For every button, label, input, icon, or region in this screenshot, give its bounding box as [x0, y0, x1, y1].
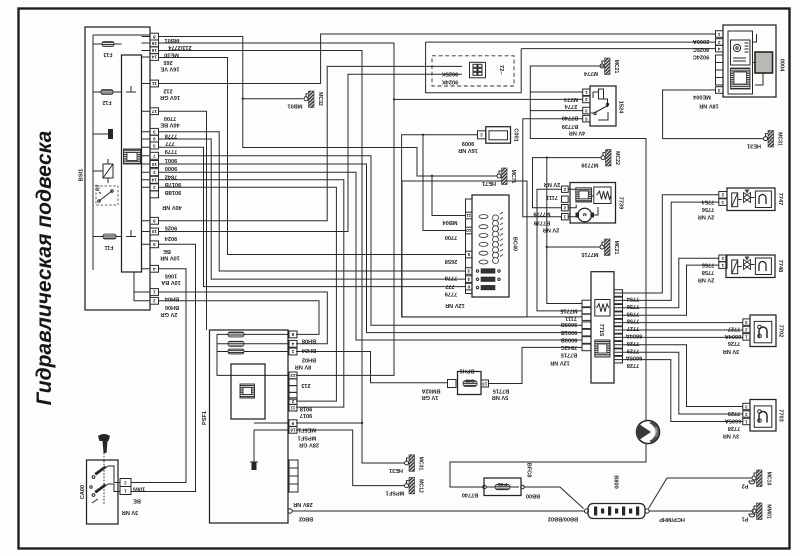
svg-text:3: 3 [467, 269, 470, 274]
svg-text:7758: 7758 [627, 318, 639, 324]
BSI1 pin 9 777 [150, 135, 159, 142]
svg-text:10: 10 [151, 162, 157, 167]
svg-text:CA00: CA00 [80, 485, 86, 499]
BSI1 pin 10 9024 [150, 228, 159, 235]
splice 8800 symbol [637, 421, 660, 444]
svg-text:1065: 1065 [165, 273, 177, 279]
svg-text:8800: 8800 [654, 428, 659, 438]
svg-text:B7739: B7739 [534, 220, 550, 226]
svg-text:16V NR: 16V NR [458, 147, 478, 153]
svg-text:9024K: 9024K [442, 79, 458, 85]
svg-text:213: 213 [301, 382, 310, 388]
wire 7111 7739 to 7715 [537, 189, 582, 311]
BSI1 pin 11 212 [150, 80, 159, 87]
svg-text:MC12: MC12 [418, 479, 424, 493]
fuse F01 box [484, 478, 521, 496]
svg-text:BH02: BH02 [302, 356, 316, 362]
svg-text:9009B: 9009B [561, 321, 577, 327]
svg-text:MC21: MC21 [613, 241, 619, 255]
svg-text:BC40: BC40 [512, 237, 518, 251]
svg-text:3: 3 [153, 143, 156, 148]
svg-text:4: 4 [153, 267, 156, 272]
svg-text:16V GR: 16V GR [160, 94, 180, 100]
svg-text:4: 4 [291, 342, 294, 347]
svg-text:BPH1: BPH1 [460, 368, 475, 374]
wire 7779 BSI to BC40 [159, 147, 466, 286]
svg-text:7729: 7729 [728, 410, 740, 416]
svg-text:7754: 7754 [626, 296, 639, 302]
PSF1 relay IC [240, 384, 255, 398]
wire 777 BSI to BC40 [159, 139, 466, 279]
1524 coil [599, 89, 604, 99]
svg-text:2: 2 [717, 40, 720, 45]
wire 9025 BSI to module 72 [159, 66, 462, 220]
PSF1 outer box [210, 330, 289, 523]
svg-text:7727: 7727 [728, 325, 740, 331]
svg-text:MC31: MC31 [418, 457, 424, 471]
0004 inner box [728, 31, 753, 94]
7702 internals [754, 321, 772, 342]
wire 7842 BSI to 7715 pin 7842C [159, 172, 582, 340]
0004 shaded square [755, 52, 773, 73]
connector BPH1 box [458, 372, 482, 395]
svg-text:17: 17 [151, 109, 157, 114]
BSI1 inner wiring box [93, 35, 150, 270]
svg-text:R7: R7 [96, 184, 102, 191]
svg-text:HE31: HE31 [747, 143, 761, 149]
node junction ME5F1 [361, 422, 363, 424]
svg-text:16: 16 [151, 48, 157, 53]
svg-text:2V GR: 2V GR [161, 311, 178, 317]
svg-text:16V VE: 16V VE [160, 66, 179, 72]
1524 switch [591, 104, 608, 121]
ground MM01 [752, 509, 756, 513]
C001 pin 2 [478, 131, 486, 139]
7739 coil [594, 187, 611, 204]
svg-text:7715: 7715 [598, 324, 604, 336]
svg-text:7754: 7754 [701, 198, 714, 204]
svg-text:3V NR: 3V NR [723, 348, 739, 354]
valve 7747 box [727, 188, 775, 211]
svg-text:2: 2 [153, 185, 156, 190]
svg-text:2: 2 [124, 480, 127, 485]
module 72 dashed box [432, 56, 514, 86]
PSF1 connector stack boxes [289, 460, 298, 468]
node junction 2774 [393, 98, 395, 100]
0004 display sub-box [731, 40, 751, 65]
wire MB01 mass from BSI1 to MC32/MC71 [159, 37, 497, 177]
PSF1 empty pins [289, 379, 297, 386]
svg-text:12V NR: 12V NR [445, 302, 465, 308]
svg-text:9018: 9018 [300, 405, 312, 411]
svg-text:7700: 7700 [164, 115, 176, 121]
BSI1 pin 16 213/2774 [150, 40, 159, 47]
svg-text:213/2774: 213/2774 [167, 44, 191, 50]
BC40 pin 10 7700 [466, 227, 473, 234]
svg-text:6604A: 6604A [725, 333, 741, 339]
svg-text:2: 2 [745, 327, 748, 332]
wire 7727 7715 to 7702 [614, 322, 743, 324]
wire 265 BSI to BC40 pin 2658 [159, 58, 466, 255]
7739 empty pin [562, 196, 569, 202]
svg-text:BE: BE [133, 498, 141, 504]
7748 pin 1 [719, 262, 727, 269]
wire 9017B BSI to PSF1 pin 9017 [159, 180, 344, 407]
svg-text:8: 8 [291, 332, 294, 337]
BC40 box [472, 195, 509, 297]
node junction M7715 [546, 156, 548, 158]
wire M774 branch 1524 pin1 [530, 91, 583, 93]
ground MC21 lower [600, 245, 604, 249]
wire M7739 MC22 ground to 7739 [533, 158, 602, 208]
ground MC10 [752, 476, 756, 480]
relay R7 box [103, 164, 113, 178]
svg-text:7755: 7755 [702, 261, 714, 267]
svg-text:9017B: 9017B [165, 181, 181, 187]
1524 pin 1 [583, 89, 590, 96]
svg-text:4: 4 [467, 277, 470, 282]
BC40 diode circles column [493, 212, 504, 264]
7715 right pin column [614, 290, 623, 363]
svg-text:7727: 7727 [627, 325, 639, 331]
svg-text:P1: P1 [742, 516, 749, 522]
svg-text:7726: 7726 [728, 340, 740, 346]
PSF1 pin 23 213 [289, 372, 297, 379]
wire 9025C to 0004 [426, 41, 716, 43]
BC40 fusible links column [479, 215, 488, 264]
svg-text:HE31: HE31 [389, 467, 403, 473]
svg-text:23: 23 [290, 373, 296, 378]
svg-text:9017: 9017 [300, 412, 312, 418]
svg-text:6604A: 6604A [626, 333, 642, 339]
svg-text:1065: 1065 [133, 486, 145, 492]
svg-text:B7740: B7740 [462, 492, 478, 498]
svg-text:9018B: 9018B [165, 189, 181, 195]
wire 9009 C001 to 7715 pin 9009B [402, 135, 582, 317]
fuse F11 [103, 234, 116, 239]
svg-text:10V BA: 10V BA [161, 279, 181, 285]
svg-text:ME30: ME30 [164, 51, 179, 57]
7747 pin 1 [719, 199, 727, 206]
svg-text:8: 8 [153, 34, 156, 39]
7739 motor [578, 208, 592, 222]
node junction MB04 mass [431, 175, 433, 177]
wire ME5F1 branch PSF1 [296, 422, 362, 424]
svg-text:BH04: BH04 [164, 296, 179, 302]
svg-text:MM01: MM01 [766, 504, 772, 519]
BC40 pin 5 2658 [466, 251, 473, 258]
module 72 solid box [426, 42, 522, 93]
svg-text:2: 2 [291, 349, 294, 354]
svg-text:7747: 7747 [777, 193, 783, 205]
0004 pin 2 9025C [716, 39, 724, 46]
svg-text:M: M [583, 212, 587, 217]
1524 pin 2 [583, 96, 590, 103]
svg-text:5: 5 [153, 242, 156, 247]
svg-text:12V NR: 12V NR [550, 360, 570, 366]
wire 213/2774 BSI to PSF1 pin 213 [159, 43, 394, 375]
svg-text:M7739: M7739 [581, 162, 598, 168]
svg-text:1: 1 [563, 215, 566, 220]
svg-text:2: 2 [721, 256, 724, 261]
PSF1 fuse BH08 [228, 332, 244, 337]
svg-text:BFC8: BFC8 [526, 463, 532, 478]
BPH1 left pin box [448, 380, 457, 388]
7739 IC [576, 188, 592, 202]
BSI1 pin 16 ME30 [150, 47, 159, 54]
svg-text:3V NR: 3V NR [723, 432, 739, 438]
BPH1 G39 element [463, 381, 477, 387]
svg-text:3: 3 [745, 320, 748, 325]
node junction MC21 lower [546, 246, 548, 248]
wire 7700 BSI down to PSF1 [159, 111, 207, 330]
wire B800 to MC10 ground [649, 478, 753, 509]
PSF1 fuse BH02 [228, 349, 244, 354]
wire BB02 PSF1 to B800 strip [292, 510, 585, 512]
svg-text:3: 3 [585, 108, 588, 113]
svg-text:BH08: BH08 [302, 338, 316, 344]
svg-text:11: 11 [290, 406, 295, 411]
svg-text:7700: 7700 [445, 234, 457, 240]
svg-text:40V NR: 40V NR [162, 204, 182, 210]
svg-text:2V NR: 2V NR [544, 181, 560, 187]
0004 pin 4 9024C [716, 45, 724, 52]
svg-text:F13: F13 [103, 51, 112, 57]
BSI1 central rectangle [122, 55, 142, 272]
svg-text:B7739: B7739 [562, 123, 578, 129]
svg-text:7758: 7758 [702, 269, 714, 275]
F01 fuse element [495, 484, 510, 489]
svg-text:2658: 2658 [445, 258, 457, 264]
svg-text:2: 2 [153, 170, 156, 175]
BSI1 pin 2 9018B [150, 184, 159, 191]
PSF1 internal wires [217, 334, 289, 446]
fuse F12 [101, 90, 113, 95]
valve 7748 box [726, 255, 775, 278]
svg-text:BH04: BH04 [301, 347, 316, 353]
svg-text:72--: 72-- [498, 65, 504, 75]
wire 9024C to 0004 [521, 48, 715, 50]
BSI1 pin 14 9017B [150, 176, 159, 183]
svg-text:MB01: MB01 [165, 37, 180, 43]
wire M774 MC21 ground to 8800 to F01 BB00 [450, 66, 646, 487]
svg-text:3: 3 [717, 88, 720, 93]
svg-text:2V NR: 2V NR [698, 276, 714, 282]
wire branch to MC32 ground [243, 98, 303, 100]
svg-text:P2: P2 [742, 483, 749, 489]
CA00 pin 2 1065 [120, 479, 131, 487]
svg-text:2774: 2774 [564, 103, 577, 109]
svg-text:2V NR: 2V NR [698, 213, 714, 219]
svg-text:9025C: 9025C [693, 46, 709, 52]
svg-text:5: 5 [585, 116, 588, 121]
wire 9001 BSI to 7715 pin 9001B [159, 156, 582, 325]
svg-text:6605A: 6605A [725, 417, 741, 423]
svg-text:MC71: MC71 [510, 170, 516, 184]
svg-text:7729: 7729 [627, 347, 639, 353]
ground MC12 [405, 484, 409, 488]
BC40 pin 3 7778 [466, 268, 473, 275]
node junction 9009/7700 [422, 134, 424, 136]
7747 internals [732, 193, 738, 207]
svg-text:M774: M774 [563, 96, 578, 102]
svg-text:4V NR: 4V NR [569, 130, 585, 136]
svg-text:1: 1 [585, 90, 588, 95]
wire BSI pin stubs [142, 37, 151, 269]
svg-text:10: 10 [151, 229, 157, 234]
wire 9024 BSI to module 72 [159, 74, 462, 231]
svg-text:1524: 1524 [618, 101, 624, 114]
svg-text:7748: 7748 [777, 260, 783, 272]
svg-text:1: 1 [717, 32, 720, 37]
svg-text:BB00: BB00 [526, 493, 540, 499]
ground MC31 center [405, 461, 409, 465]
BC40 pin 11 MB04 [466, 212, 473, 219]
svg-text:28V NR: 28V NR [293, 501, 313, 507]
svg-text:10: 10 [466, 228, 472, 233]
svg-text:3: 3 [153, 130, 156, 135]
svg-text:MC10: MC10 [766, 472, 772, 486]
wire fuse F11 feed [93, 230, 136, 237]
7748 internals [732, 260, 738, 274]
wire 9018B BSI to PSF1 pin 9018 [159, 187, 336, 401]
wire HCP/MHP B800 to MM01 ground [650, 510, 755, 512]
wire 6605A 7715 to 7703 [614, 352, 743, 414]
CA00 switch contacts [103, 461, 105, 506]
svg-text:BM02A: BM02A [422, 387, 441, 393]
svg-text:HE71: HE71 [482, 180, 496, 186]
0004 hatched sub-box [731, 68, 751, 89]
PSF1 relay box [231, 364, 265, 419]
svg-text:9: 9 [291, 421, 294, 426]
wire 7755 7715 to 7748 [614, 258, 719, 308]
svg-text:7756: 7756 [702, 206, 714, 212]
svg-text:HCP/MHP: HCP/MHP [659, 516, 685, 522]
BSI1 pin 1 BH04 [150, 289, 159, 296]
svg-text:6605A: 6605A [626, 355, 642, 361]
BSI1 pin 3 7779 [150, 142, 159, 149]
svg-text:F11: F11 [105, 244, 114, 250]
svg-text:13: 13 [482, 381, 488, 386]
wire 7778 BSI to BC40 [159, 132, 466, 271]
svg-text:9000B: 9000B [561, 337, 577, 343]
svg-text:7111: 7111 [565, 315, 577, 321]
svg-text:212: 212 [163, 88, 172, 94]
svg-text:2: 2 [291, 399, 294, 404]
svg-text:7778: 7778 [445, 275, 457, 281]
svg-text:B800: B800 [613, 475, 619, 488]
svg-text:M7715: M7715 [560, 308, 577, 314]
BSI1 pin 3 7778 [150, 128, 159, 135]
BC40 pin 4 777 [466, 276, 473, 283]
svg-text:M7715: M7715 [581, 251, 598, 257]
7739 pin 2 7111 [562, 186, 569, 192]
sensor 7702 box [750, 315, 776, 347]
wire B7740 branch 1524 pin3 [530, 110, 583, 112]
wire BB00 F01 to B800 strip [524, 487, 584, 509]
wire BH04 BSI to PSF1 [159, 292, 327, 344]
BC40 fuse bars [481, 269, 495, 274]
PSF1 pin 9 ME5F1 [289, 420, 297, 427]
BSI1 pin 8 MB01 [150, 33, 159, 40]
svg-text:1: 1 [745, 419, 748, 424]
svg-text:14: 14 [151, 55, 157, 60]
CA00 switch box [87, 460, 119, 524]
0004 empty pins [716, 55, 724, 63]
svg-text:6: 6 [153, 219, 156, 224]
CA00 ignition key symbol [98, 434, 110, 441]
fuse F13 [102, 42, 114, 47]
svg-text:MPSF1: MPSF1 [386, 490, 405, 496]
control unit 0004 outer box [723, 25, 776, 97]
0004 pin 1 2000A [716, 31, 724, 38]
7747 pin 2 [719, 192, 727, 199]
svg-text:3: 3 [745, 404, 748, 409]
ground MC71 [497, 174, 501, 178]
7739 pin 1 B7739 [562, 214, 569, 220]
wire BE BSI to CA00 [131, 244, 195, 491]
svg-text:7703: 7703 [778, 409, 784, 421]
svg-text:M774: M774 [583, 70, 598, 76]
wire B7715 BPH1 to 7715 [489, 347, 582, 383]
svg-text:MB04: MB04 [442, 219, 458, 225]
7703 pins 3 2 1 [743, 403, 750, 409]
svg-text:MC31: MC31 [777, 132, 783, 146]
wire 2774 branch to 1524 [394, 98, 583, 100]
svg-text:5V NR: 5V NR [492, 394, 508, 400]
switch dashed box R7 [96, 186, 118, 205]
svg-text:F12: F12 [102, 99, 111, 105]
wire BH06 BSI to PSF1 pin BH08 [159, 301, 319, 335]
svg-text:MC32: MC32 [317, 92, 323, 106]
PSF1 pin 16 MPSF1 [289, 427, 297, 434]
svg-text:2: 2 [721, 193, 724, 198]
svg-text:3V NR: 3V NR [122, 509, 138, 515]
svg-text:9024C: 9024C [693, 53, 709, 59]
BSI1 pin 2 7842 [150, 169, 159, 176]
svg-text:1: 1 [124, 488, 127, 493]
BPH1 right pin box [481, 380, 489, 387]
svg-text:7739: 7739 [618, 197, 624, 209]
svg-text:1: 1 [745, 335, 748, 340]
svg-text:7728: 7728 [728, 425, 740, 431]
BSI1 pin 7 9001 [150, 152, 159, 159]
ground MC22 [601, 156, 605, 160]
svg-text:8V NR: 8V NR [295, 364, 311, 370]
svg-text:7728: 7728 [627, 362, 639, 368]
svg-text:18V NR: 18V NR [699, 103, 719, 109]
BSI1 outer box [85, 27, 150, 310]
svg-text:ME004: ME004 [692, 94, 711, 100]
wire 7758 7715 to 7748 [614, 265, 719, 315]
relay 1524 box [590, 86, 616, 126]
BSI1 pin 17 7700 [150, 108, 159, 115]
wire 6604A 7715 to 7702 [614, 329, 743, 331]
svg-text:B7740: B7740 [562, 114, 578, 120]
wire 7728 7715 to 7703 [614, 360, 743, 422]
7715 coil symbol [595, 300, 610, 317]
svg-text:1V GR: 1V GR [422, 394, 439, 400]
BSI1 pin 5 BE [150, 241, 159, 248]
wire ME30 BSI to MC31 ground [159, 51, 405, 464]
7715 IC symbol [595, 340, 610, 357]
wire ME004 0004 to MC31 ground [663, 90, 764, 139]
svg-text:ME5F1: ME5F1 [298, 426, 316, 432]
wire 9000 BSI to 7715 pin 9000B [159, 164, 582, 333]
wire 7726 7715 to 7702 [614, 336, 743, 338]
CA00 pin 1 BE [120, 487, 131, 495]
svg-text:9025K: 9025K [442, 71, 458, 77]
